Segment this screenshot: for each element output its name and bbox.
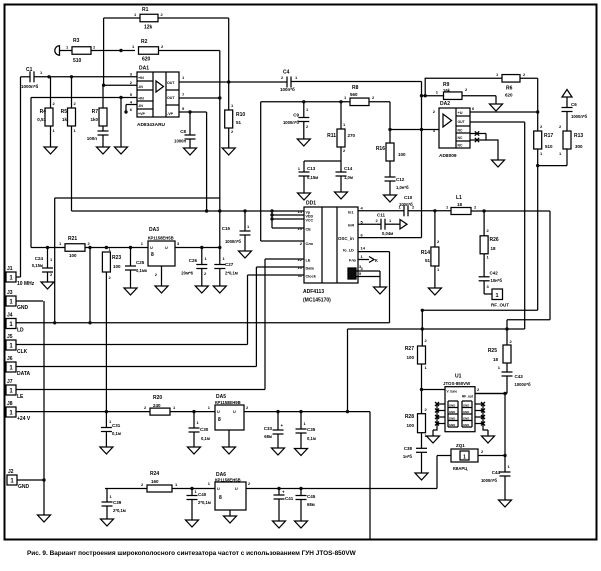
- wire to VCO V_tune: [422, 389, 446, 391]
- svg-text:14: 14: [361, 246, 366, 251]
- svg-text:NC: NC: [458, 129, 463, 133]
- wire J1: [16, 276, 21, 278]
- wire to DA1 -IN2: [126, 104, 137, 106]
- svg-text:C27: C27: [225, 262, 234, 267]
- capacitor C41: [278, 489, 280, 496]
- wire R2 to DA1 pin7 node: [159, 50, 220, 52]
- wire vertical x20 J1 to C1: [20, 77, 22, 277]
- svg-text:C43: C43: [515, 374, 524, 379]
- ground C14: [335, 192, 348, 199]
- wire R5 to +5V rail: [71, 126, 73, 211]
- ground C13: [298, 193, 311, 200]
- svg-text:CLK: CLK: [17, 349, 28, 355]
- svg-text:1: 1: [463, 455, 466, 461]
- svg-text:U: U: [217, 487, 220, 491]
- svg-text:+IN: +IN: [138, 97, 144, 101]
- svg-text:GND: GND: [17, 305, 29, 311]
- connector J8: [6, 407, 16, 417]
- connector J7: [6, 385, 16, 395]
- svg-text:1,0м: 1,0м: [344, 175, 353, 180]
- svg-text:1k0: 1k0: [90, 117, 98, 122]
- svg-text:560: 560: [350, 92, 358, 97]
- svg-text:18: 18: [457, 202, 463, 207]
- svg-text:0,15м: 0,15м: [32, 263, 43, 268]
- resistor R14: [434, 211, 436, 247]
- svg-text:-IN: -IN: [138, 85, 143, 89]
- wire J8 +24V: [16, 411, 150, 413]
- svg-text:8: 8: [151, 252, 154, 258]
- svg-text:fo_LD: fo_LD: [343, 249, 354, 253]
- svg-text:13: 13: [298, 226, 303, 231]
- svg-text:C9: C9: [293, 113, 299, 118]
- svg-text:RF_OUT: RF_OUT: [491, 303, 509, 308]
- svg-text:1: 1: [495, 293, 498, 299]
- svg-text:R27: R27: [405, 346, 414, 352]
- wire vertical x229 R1 to OUT1: [228, 18, 230, 82]
- capacitor C15 on rail: [244, 211, 246, 231]
- svg-text:C44: C44: [492, 470, 501, 475]
- svg-text:1000п*б: 1000п*б: [225, 239, 241, 244]
- svg-text:R14: R14: [421, 250, 430, 256]
- inductor L1: [451, 208, 471, 215]
- svg-text:18: 18: [493, 357, 499, 362]
- wire vertical x31 to R21: [30, 98, 32, 248]
- svg-text:620: 620: [505, 93, 513, 98]
- wire x422 Vtune chain: [421, 310, 423, 346]
- wire DA3 gnd pin: [161, 266, 163, 286]
- svg-text:R1: R1: [142, 7, 149, 13]
- svg-text:2*0,1м: 2*0,1м: [225, 271, 238, 276]
- ground C35: [295, 449, 308, 456]
- svg-text:J8: J8: [7, 401, 13, 407]
- svg-text:C39: C39: [113, 500, 122, 505]
- resistor R25: [506, 320, 508, 345]
- svg-text:100п*б: 100п*б: [280, 86, 295, 92]
- svg-text:GND: GND: [449, 417, 455, 421]
- wire x348 to +24V rail: [347, 329, 349, 412]
- voltage regulator DA5: [215, 405, 244, 430]
- ground C9: [297, 139, 310, 146]
- svg-text:1000п*б: 1000п*б: [481, 478, 497, 483]
- svg-text:R20: R20: [153, 395, 162, 401]
- ground C30: [188, 447, 201, 454]
- resistor R3: [72, 47, 91, 55]
- svg-text:C26: C26: [189, 258, 198, 263]
- resistor R20: [150, 408, 170, 415]
- svg-text:C13: C13: [307, 166, 316, 171]
- ground J2: [38, 515, 51, 522]
- svg-text:1н*б: 1н*б: [403, 454, 412, 459]
- wire DA6 gnd: [229, 510, 231, 516]
- svg-text:510: 510: [545, 144, 553, 149]
- svg-text:1000п*б: 1000п*б: [21, 83, 38, 89]
- svg-text:C12: C12: [396, 177, 405, 182]
- svg-text:+24 V: +24 V: [17, 416, 31, 422]
- svg-text:C25: C25: [136, 260, 145, 265]
- ground DA3: [155, 286, 168, 293]
- capacitor C4: [286, 77, 288, 88]
- svg-text:0,1м: 0,1м: [112, 431, 121, 436]
- svg-text:2*0,1м: 2*0,1м: [198, 500, 211, 505]
- wire J2 gnd: [17, 479, 44, 481]
- svg-text:DA1: DA1: [139, 66, 149, 72]
- svg-text:0,1мк: 0,1мк: [136, 268, 148, 273]
- svg-text:DD1: DD1: [306, 201, 316, 207]
- wire DA1 OUT1: [179, 81, 287, 83]
- svg-text:(MC145170): (MC145170): [303, 298, 331, 304]
- connector J3: [6, 296, 16, 306]
- ground C8: [184, 148, 197, 155]
- wire R3 to R2: [91, 50, 135, 52]
- svg-text:AD8343ARU: AD8343ARU: [137, 122, 166, 128]
- svg-text:68м: 68м: [264, 434, 272, 439]
- svg-text:CE: CE: [306, 228, 312, 232]
- wire input to R3: [60, 50, 72, 52]
- svg-text:R23: R23: [112, 255, 121, 261]
- svg-text:OUT: OUT: [167, 96, 175, 100]
- svg-text:U: U: [217, 410, 220, 414]
- capacitor C24: [47, 248, 49, 269]
- PLL supply pin fan: [272, 210, 304, 212]
- VCO NC stubs: [437, 403, 445, 405]
- svg-text:C38: C38: [404, 446, 413, 451]
- svg-text:R13: R13: [574, 133, 583, 139]
- svg-text:100: 100: [406, 355, 414, 360]
- svg-text:U: U: [150, 246, 153, 250]
- svg-text:R3: R3: [73, 38, 80, 44]
- svg-text:C10: C10: [404, 195, 413, 200]
- ground C24: [41, 282, 54, 289]
- svg-text:VCC: VCC: [306, 219, 314, 223]
- DD1 gnd pins: [356, 270, 380, 272]
- resistor R9: [422, 95, 444, 97]
- wire J3: [16, 300, 43, 302]
- ground C26: [195, 286, 208, 293]
- wire C1 to DA1 +IN1: [34, 76, 137, 78]
- VCO U1 JTOS-850VW: [445, 387, 475, 432]
- svg-text:C1: C1: [26, 67, 33, 73]
- svg-text:+: +: [282, 490, 285, 495]
- svg-text:R21: R21: [68, 236, 77, 242]
- resistor R8: [350, 98, 369, 106]
- wire DA2 input y=129.5: [390, 129, 439, 131]
- svg-text:8: 8: [218, 417, 221, 423]
- capacitor C12: [385, 176, 396, 178]
- connector RF_OUT: [492, 289, 503, 300]
- ground DA2 NC: [492, 160, 505, 167]
- capacitor C9: [303, 102, 305, 118]
- svg-text:КВАРЦ: КВАРЦ: [453, 466, 468, 471]
- svg-text:U1: U1: [455, 374, 462, 380]
- svg-text:10 MHz: 10 MHz: [17, 281, 35, 287]
- svg-text:U: U: [235, 487, 238, 491]
- filter ZQ1: [437, 455, 451, 457]
- svg-text:51: 51: [236, 120, 242, 125]
- resistor R4: [50, 77, 52, 108]
- wire DA5 gnd pin: [228, 430, 230, 447]
- svg-text:R17: R17: [544, 133, 553, 139]
- capacitor C13: [303, 161, 305, 172]
- off-page arrow: [400, 220, 407, 230]
- ground C2: [97, 147, 110, 154]
- svg-text:U: U: [233, 410, 236, 414]
- svg-text:J4: J4: [7, 313, 13, 319]
- wire DA6 rail y488: [105, 488, 215, 490]
- svg-text:OSC_in: OSC_in: [338, 236, 354, 241]
- svg-text:R8: R8: [352, 85, 359, 91]
- svg-text:20м*6: 20м*6: [181, 271, 193, 276]
- wire DD1 InR pin5: [358, 223, 381, 225]
- svg-text:C24: C24: [35, 256, 44, 261]
- svg-text:ADF4113: ADF4113: [303, 289, 324, 295]
- ground C31: [100, 447, 113, 454]
- svg-text:GND: GND: [463, 417, 469, 421]
- svg-text:270: 270: [348, 133, 356, 138]
- svg-text:ZQ1: ZQ1: [456, 443, 465, 448]
- capacitor C2: [98, 130, 109, 132]
- svg-text:КР1158ЕН5В: КР1158ЕН5В: [215, 478, 241, 483]
- svg-text:In1: In1: [348, 211, 354, 215]
- +5V supply arrow: [562, 90, 572, 98]
- svg-text:GND: GND: [449, 423, 455, 427]
- wire C13/C14 top: [304, 160, 341, 162]
- svg-text:R2: R2: [141, 39, 148, 45]
- svg-text:R7: R7: [92, 109, 99, 115]
- svg-text:0,04м: 0,04м: [382, 231, 393, 236]
- svg-text:LE: LE: [306, 259, 311, 263]
- svg-text:DA2: DA2: [440, 101, 450, 107]
- svg-text:Рис. 9. Вариант построения шир: Рис. 9. Вариант построения широкополосно…: [27, 550, 357, 557]
- ground C15: [239, 251, 252, 258]
- connector J2: [7, 475, 17, 485]
- capacitor C43: [502, 371, 513, 373]
- svg-text:DA3: DA3: [149, 227, 159, 233]
- svg-text:8: 8: [219, 495, 222, 501]
- ground VCO right: [482, 436, 495, 443]
- ground R10: [222, 148, 235, 155]
- ground bias: [115, 147, 128, 154]
- capacitor C35: [300, 412, 302, 429]
- ground C38: [415, 473, 428, 480]
- resistor R6: [502, 75, 520, 83]
- capacitor C45: [300, 489, 302, 496]
- wire VCO gnd left: [432, 430, 434, 436]
- svg-text:R24: R24: [150, 471, 159, 477]
- svg-text:16k: 16k: [443, 88, 451, 93]
- wire x421 main vertical: [421, 82, 423, 238]
- capacitor C44: [504, 456, 506, 473]
- svg-text:0,1м: 0,1м: [307, 436, 316, 441]
- connector J4: [6, 319, 16, 329]
- capacitor C26: [201, 248, 203, 265]
- wire DD1 In1 pin4: [358, 210, 404, 212]
- svg-text:C30: C30: [200, 427, 209, 432]
- svg-text:100: 100: [398, 152, 406, 157]
- wire DA2out2 vertical x524: [524, 122, 526, 329]
- svg-text:C40: C40: [198, 492, 207, 497]
- wire DA3 output +5V: [175, 247, 220, 249]
- capacitor C40: [191, 489, 193, 496]
- svg-text:+: +: [281, 423, 284, 428]
- svg-text:КР1158ЕН9В: КР1158ЕН9В: [215, 400, 241, 405]
- connector J5: [6, 340, 16, 350]
- wire x44 gnd bus: [43, 301, 45, 480]
- svg-text:R25: R25: [488, 348, 497, 354]
- ground DD1: [374, 287, 387, 294]
- svg-text:240: 240: [153, 403, 161, 408]
- wire DA2 out2: [470, 121, 525, 123]
- wire VCO RF out: [475, 393, 507, 395]
- svg-text:1000п: 1000п: [174, 139, 186, 144]
- svg-text:J5: J5: [7, 334, 13, 340]
- capacitor C10: [403, 205, 405, 216]
- ground C40: [186, 520, 199, 527]
- svg-text:КР1158ЕН5В: КР1158ЕН5В: [148, 236, 174, 241]
- svg-text:C31: C31: [112, 423, 121, 428]
- wire x206 to rail: [206, 112, 208, 211]
- svg-text:0,15м: 0,15м: [307, 175, 318, 180]
- capacitor C42: [479, 276, 490, 278]
- svg-text:Fло: Fло: [349, 259, 357, 263]
- capacitor C30: [193, 412, 195, 428]
- ground C44: [499, 500, 512, 507]
- svg-text:R4: R4: [40, 109, 47, 115]
- resistor R2: [139, 47, 159, 55]
- ground R14: [428, 288, 441, 295]
- wire to DA1 +IN2: [31, 97, 137, 99]
- connector J1: [6, 272, 16, 282]
- wire reference y=101.8: [261, 101, 350, 103]
- svg-text:68м: 68м: [307, 502, 315, 507]
- wire ZQ1 out: [478, 455, 505, 457]
- wire LE to DD1: [265, 258, 304, 260]
- wire DATA to DD1: [256, 266, 304, 268]
- svg-text:NC: NC: [458, 144, 463, 148]
- wire J6 DATA: [16, 366, 256, 368]
- svg-text:C4: C4: [283, 70, 290, 76]
- wire step to R6: [425, 78, 502, 95]
- wire VCO sample stair: [549, 211, 551, 320]
- ground C45: [295, 521, 308, 528]
- voltage regulator DA6: [215, 482, 246, 510]
- svg-text:J1: J1: [7, 266, 13, 272]
- svg-text:GND: GND: [463, 404, 469, 408]
- svg-text:R16: R16: [376, 146, 385, 152]
- ground C33: [272, 448, 285, 455]
- svg-text:10н*б: 10н*б: [491, 278, 503, 283]
- ground C27: [213, 286, 226, 293]
- svg-text:RF_out: RF_out: [462, 395, 474, 399]
- svg-text:J2: J2: [8, 469, 14, 475]
- svg-text:GND: GND: [449, 410, 455, 414]
- svg-text:+U: +U: [458, 111, 463, 115]
- capacitor C25: [130, 248, 132, 267]
- wire DA2 out1: [470, 111, 538, 113]
- svg-text:1000п*б: 1000п*б: [515, 382, 531, 387]
- resistor R26: [483, 211, 485, 236]
- svg-text:1000п*б: 1000п*б: [283, 120, 299, 125]
- resistor R7: [102, 85, 104, 108]
- svg-text:-IN: -IN: [138, 104, 143, 108]
- wire R23 to +24V rail: [105, 272, 107, 412]
- DD1 hatched gnd pins: [348, 268, 356, 279]
- resistor R17: [537, 112, 539, 131]
- wire J5 CLK: [16, 344, 248, 346]
- wire C4 to x421: [291, 81, 422, 83]
- svg-text:C42: C42: [490, 271, 499, 276]
- svg-text:C33: C33: [264, 426, 273, 431]
- svg-text:InR: InR: [348, 224, 354, 228]
- resistor R16: [386, 143, 394, 161]
- svg-text:J3: J3: [7, 290, 13, 296]
- svg-text:OUT: OUT: [167, 81, 175, 85]
- svg-text:GND: GND: [463, 410, 469, 414]
- wire -IN2 jog: [125, 105, 127, 113]
- svg-text:100: 100: [113, 264, 121, 269]
- wire +5V rail y=211: [72, 210, 273, 212]
- capacitor C1: [21, 76, 31, 78]
- voltage regulator DA3: [148, 241, 175, 266]
- svg-text:C11: C11: [377, 213, 386, 218]
- ground C25: [124, 288, 137, 295]
- wire x90 to LD line: [89, 248, 91, 323]
- capacitor C27: [219, 248, 221, 265]
- svg-text:Data: Data: [306, 267, 315, 271]
- ground R4: [44, 147, 57, 154]
- wire x260 ref to pin Cл: [260, 102, 262, 241]
- svg-text:C35: C35: [307, 427, 316, 432]
- svg-text:0,51: 0,51: [37, 117, 46, 122]
- ground C41: [273, 521, 286, 528]
- svg-text:3: 3: [359, 265, 361, 269]
- wire to DA1 -IN1: [104, 84, 137, 86]
- PLL synthesizer DD1: [304, 207, 358, 283]
- wire DA3 input y=247.5: [31, 247, 65, 249]
- svg-text:C45: C45: [307, 494, 316, 499]
- svg-text:R26: R26: [490, 237, 499, 243]
- wire DD1 PD out stub: [358, 259, 369, 261]
- svg-text:OUT: OUT: [458, 120, 466, 124]
- wire R1 to output node: [158, 17, 229, 19]
- svg-text:R11: R11: [327, 133, 336, 139]
- wire DA1 -VCC pin9: [179, 111, 207, 113]
- wire long y329: [348, 328, 525, 330]
- op-amp DA2: [439, 108, 470, 148]
- wire R13 bottom to R17 bottom: [538, 165, 567, 167]
- svg-text:51: 51: [425, 258, 431, 263]
- svg-text:-VP: -VP: [167, 112, 174, 116]
- svg-text:U: U: [165, 246, 168, 250]
- wire R6 to x538: [520, 77, 538, 79]
- svg-text:2*0,1м: 2*0,1м: [113, 508, 126, 513]
- svg-text:1000п*б: 1000п*б: [571, 114, 587, 119]
- svg-text:C6: C6: [571, 102, 577, 107]
- svg-text:AD8009: AD8009: [439, 153, 457, 159]
- capacitor C8: [189, 112, 191, 135]
- svg-text:300: 300: [575, 144, 583, 149]
- wire Vtune stair y310: [422, 309, 537, 311]
- svg-text:R10: R10: [236, 112, 245, 118]
- svg-text:LD: LD: [17, 328, 24, 334]
- svg-text:+IN: +IN: [138, 76, 144, 80]
- resistor R10: [228, 82, 230, 110]
- svg-text:J7: J7: [7, 379, 13, 385]
- DA2 NC pins to ground: [470, 133, 486, 135]
- wire +IN2 bias to ground: [120, 98, 122, 148]
- wire vertical x390 ref divider: [389, 102, 391, 143]
- wire vertical x220 R2/pin7/+5V rail: [219, 51, 221, 248]
- wire x538 to Vtune stair: [537, 149, 539, 310]
